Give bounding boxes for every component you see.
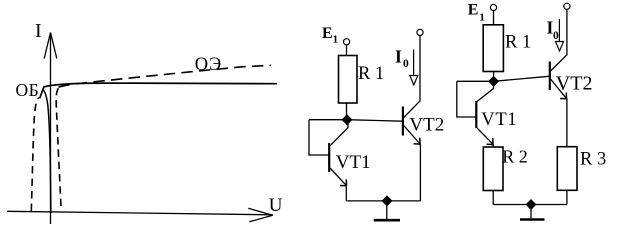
wire R2 to bottom <box>492 191 494 205</box>
U axis (horizontal) <box>7 208 273 222</box>
svg-text:0: 0 <box>403 58 409 70</box>
svg-text:U: U <box>269 195 283 216</box>
resistor R2 <box>483 147 503 191</box>
transistor VT2 (circuit 1) base bar <box>402 107 404 136</box>
svg-text:VT1: VT1 <box>336 152 371 173</box>
svg-text:ОБ: ОБ <box>16 80 40 100</box>
dashed OE curve <box>56 87 61 206</box>
bottom wire (circuit 1) <box>346 200 420 202</box>
VT2 collector (circuit 2) <box>551 9 567 71</box>
terminal I0 (circuit 1) <box>417 29 423 35</box>
bottom junction dot (circuit 2) <box>525 199 536 210</box>
transistor VT1 (circuit 2) base bar <box>475 101 477 128</box>
bottom wire (circuit 2) <box>493 204 567 206</box>
junction node dot (circuit 1) <box>341 114 352 125</box>
svg-text:E: E <box>468 2 479 19</box>
terminal I0 (circuit 2) <box>564 3 570 9</box>
dashed curve left branch <box>31 98 39 212</box>
svg-text:1: 1 <box>333 34 339 46</box>
node wire (circuit 2) <box>457 76 549 81</box>
VT1 emitter with arrow <box>330 168 346 185</box>
wire VT1 emitter to R2 <box>492 144 494 147</box>
VT1 emitter with arrow (circuit 2) <box>477 128 493 144</box>
transistor VT1 (circuit 1) base bar <box>328 143 330 172</box>
VT2 collector <box>404 36 420 118</box>
ground bar (circuit 2) <box>520 218 545 221</box>
wire R1 to node <box>346 103 348 120</box>
wire terminal to R1 <box>493 11 495 25</box>
I0 current arrow (circuit 2) <box>558 19 560 42</box>
solid OB curve hook <box>40 87 44 99</box>
node wire (circuit 1) <box>309 120 402 122</box>
VT1 collector (circuit 2) <box>477 81 494 101</box>
VT1 collector <box>330 120 348 146</box>
bottom junction dot (circuit 1) <box>381 195 392 206</box>
svg-text:I: I <box>35 20 42 42</box>
svg-text:VT2: VT2 <box>556 72 593 94</box>
wire R3 to bottom <box>566 190 568 204</box>
svg-text:R 2: R 2 <box>502 147 528 167</box>
svg-text:R 1: R 1 <box>358 64 384 84</box>
svg-text:R 3: R 3 <box>580 149 606 169</box>
svg-text:ОЭ: ОЭ <box>195 55 222 75</box>
terminal E1 (circuit 1) <box>344 39 350 45</box>
VT2 emitter with arrow <box>404 126 420 144</box>
wire VT2 emitter to R3 <box>566 98 568 147</box>
resistor R3 <box>557 147 577 191</box>
I0 current arrow (circuit 1) <box>413 50 415 76</box>
svg-text:VT2: VT2 <box>409 115 444 136</box>
wire VT1 emitter down <box>345 185 347 201</box>
dashed OE curve gentle part <box>59 65 272 87</box>
transistor VT2 (circuit 2) base bar <box>549 62 551 91</box>
solid OB curve steep part <box>43 89 51 213</box>
resistor R1 (circuit 2) <box>483 25 503 72</box>
I axis (vertical) <box>44 33 57 225</box>
ground stub (circuit 1) <box>386 201 388 219</box>
ground bar (circuit 1) <box>374 219 400 222</box>
wire R1 to node <box>493 72 495 82</box>
svg-text:E: E <box>322 25 333 42</box>
svg-text:I: I <box>395 47 402 67</box>
wire left loop (circuit 2) <box>457 81 476 117</box>
svg-text:0: 0 <box>553 30 559 42</box>
ground stub (circuit 2) <box>530 205 532 219</box>
resistor R1 (circuit 1) <box>339 56 358 104</box>
VT2 emitter with arrow (circuit 2) <box>551 79 567 98</box>
svg-text:1: 1 <box>479 11 485 23</box>
wire terminal to R1 <box>346 45 348 55</box>
terminal E1 (circuit 2) <box>490 4 496 10</box>
svg-text:R 1: R 1 <box>505 33 531 53</box>
svg-text:VT1: VT1 <box>481 110 517 130</box>
junction node dot (circuit 2) <box>488 76 499 87</box>
wire left loop (circuit 1) <box>309 120 329 155</box>
wire VT2 emitter down <box>419 144 421 201</box>
solid OB curve flat part <box>44 83 278 87</box>
